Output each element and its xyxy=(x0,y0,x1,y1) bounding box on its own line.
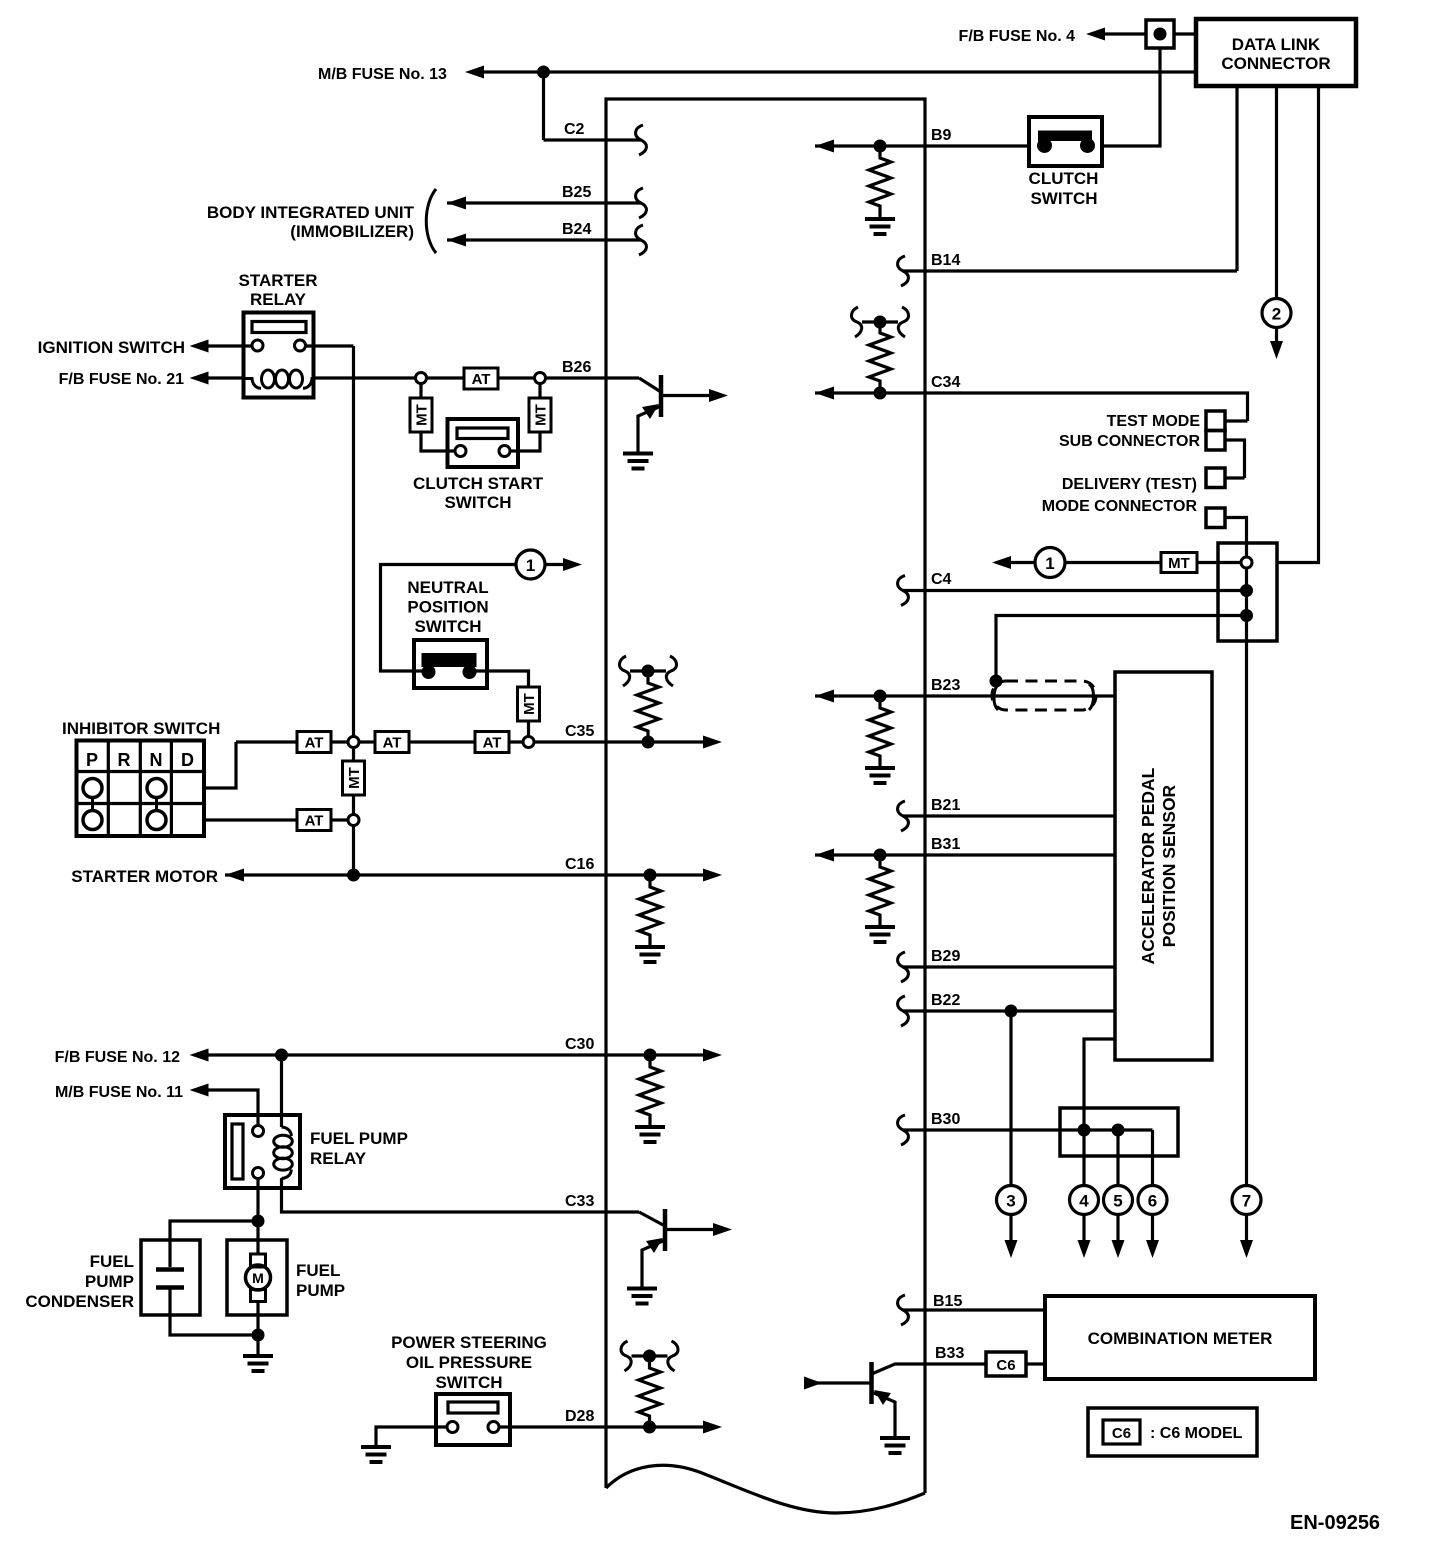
svg-text:CLUTCH START: CLUTCH START xyxy=(413,474,544,493)
clutch start switch contact right xyxy=(499,446,510,457)
data link connector box xyxy=(1196,19,1356,86)
fuel pump condenser box xyxy=(141,1240,200,1315)
wire to ground fuel pump xyxy=(256,1335,259,1356)
inhibitor contacts P column xyxy=(83,779,102,798)
wire square down to clutch switch xyxy=(1102,48,1160,146)
fuel pump relay contact bottom xyxy=(253,1168,264,1179)
transistor Q1 emitter xyxy=(638,406,661,453)
fuel pump relay box xyxy=(225,1115,300,1188)
arrow down circle 5 xyxy=(1112,1240,1125,1258)
AT box on B26 wire xyxy=(464,368,498,389)
svg-text:2: 2 xyxy=(1272,305,1281,324)
arrow M/B FUSE No. 13 xyxy=(465,66,484,79)
junction dot B30 block left xyxy=(1078,1124,1091,1137)
break squiggle B14 xyxy=(898,256,909,286)
wire DLC pin2 down to circle 2 xyxy=(1275,86,1278,299)
wire MT connector pin1 to circle 1 xyxy=(1065,561,1241,564)
MT box left (clutch start) xyxy=(410,398,432,432)
arrow B31 xyxy=(815,849,834,862)
svg-text:C6: C6 xyxy=(996,1357,1015,1374)
wire M/B FUSE No. 13 (y=72) xyxy=(481,70,1196,73)
junction dot B9 internal xyxy=(874,140,887,153)
arrow B9 xyxy=(815,140,834,153)
break squiggle B22 xyxy=(898,996,909,1026)
power steering oil pressure switch box xyxy=(436,1394,510,1445)
svg-text:F/B FUSE No. 4: F/B FUSE No. 4 xyxy=(959,28,1076,45)
arrow circle1 right xyxy=(563,558,582,571)
wire C6 to combination meter xyxy=(1026,1362,1045,1365)
svg-text:POWER STEERING: POWER STEERING xyxy=(391,1333,547,1352)
wire vertical x353 lower to starter motor wire xyxy=(352,826,355,876)
arrow C35 right (internal) xyxy=(703,736,722,749)
resistor B9 internal xyxy=(869,146,891,218)
neutral position switch bar xyxy=(422,653,477,667)
node C35/MT open circle xyxy=(523,737,534,748)
svg-text:RELAY: RELAY xyxy=(310,1149,367,1168)
svg-text:BODY INTEGRATED UNIT: BODY INTEGRATED UNIT xyxy=(207,203,415,222)
arrow STARTER MOTOR xyxy=(225,869,244,882)
fuel pump relay coil xyxy=(282,1127,292,1136)
svg-text:C35: C35 xyxy=(565,723,594,740)
svg-text:EN-09256: EN-09256 xyxy=(1290,1512,1380,1534)
wire C2 drop vertical xyxy=(542,72,545,140)
wire NPS to MT xyxy=(470,671,529,737)
test mode sub connector pin 2 xyxy=(1206,431,1225,451)
capacitor plates (condenser) xyxy=(156,1270,184,1288)
junction dot shield tap xyxy=(990,675,1003,688)
break squiggle C4 xyxy=(898,576,909,606)
MT box (neutral position) xyxy=(518,687,540,721)
wire junction to condenser xyxy=(170,1221,258,1267)
svg-text:CONDENSER: CONDENSER xyxy=(25,1292,134,1311)
node AT junction left (B26) xyxy=(416,373,427,384)
B30 connector block box xyxy=(1060,1108,1178,1156)
wire block verticals to circles 4 5 6 xyxy=(1084,1130,1153,1186)
svg-text:B26: B26 xyxy=(562,359,591,376)
power steering switch contact right xyxy=(488,1422,499,1433)
MT box right (clutch start) xyxy=(529,398,551,432)
junction dot fuel pump bottom xyxy=(252,1329,265,1342)
svg-text:ACCELERATOR PEDAL: ACCELERATOR PEDAL xyxy=(1138,767,1158,964)
arrow M/B FUSE No. 11 xyxy=(190,1084,209,1097)
wire condenser bottom xyxy=(170,1290,258,1336)
transistor Q3 collector wire B33 xyxy=(872,1364,987,1374)
svg-text:6: 6 xyxy=(1148,1192,1157,1211)
break squiggle B21 xyxy=(898,801,909,831)
wire relay bottom contact down xyxy=(256,1179,259,1221)
node MT connector pin1 open circle xyxy=(1241,557,1252,568)
transistor Q1 collector wire xyxy=(661,394,711,397)
ground power steering xyxy=(361,1447,391,1462)
svg-text:B31: B31 xyxy=(931,836,960,853)
svg-text:F/B FUSE No. 21: F/B FUSE No. 21 xyxy=(59,371,184,388)
fuel pump relay contact top xyxy=(253,1126,264,1137)
junction dot B23 internal xyxy=(874,690,887,703)
clutch switch contact left xyxy=(1037,138,1052,153)
junction dot starter motor x353 xyxy=(347,869,360,882)
ground B31 xyxy=(865,927,895,942)
svg-text:FUEL: FUEL xyxy=(90,1252,134,1271)
wire circle1 to neutral position switch xyxy=(381,565,517,672)
svg-text:SWITCH: SWITCH xyxy=(444,493,511,512)
wire B15 (y=1310) xyxy=(903,1308,1045,1311)
svg-text:C6: C6 xyxy=(1112,1425,1131,1442)
arrow B24 xyxy=(447,234,466,247)
arrow down circle 2 xyxy=(1270,341,1283,359)
arrow C16 right internal xyxy=(703,869,722,882)
transistor Q2 (C33) base wire xyxy=(639,1212,665,1226)
svg-text:C30: C30 xyxy=(565,1036,594,1053)
wire delivery upper pin xyxy=(1225,476,1245,479)
wire inhibitor row2 to C35 xyxy=(204,742,236,788)
arrow B25 xyxy=(447,197,466,210)
node AT junction right (B26) xyxy=(535,373,546,384)
svg-text:C2: C2 xyxy=(564,121,585,138)
svg-text:TEST MODE: TEST MODE xyxy=(1107,413,1201,430)
junction dot B30 block right xyxy=(1112,1124,1125,1137)
clutch switch contact right xyxy=(1080,138,1095,153)
resistor C34 internal xyxy=(869,321,891,393)
clutch switch bar xyxy=(1038,131,1092,142)
svg-text:SWITCH: SWITCH xyxy=(435,1373,502,1392)
node 1 circle (right) xyxy=(1035,548,1065,578)
ground Q1 xyxy=(623,454,653,469)
starter relay coil xyxy=(244,379,262,389)
resistor C16 internal xyxy=(639,875,661,947)
node 3 circle xyxy=(997,1186,1026,1215)
break squiggle B15 xyxy=(898,1295,909,1325)
svg-text:B21: B21 xyxy=(931,797,960,814)
AT box C35 #2 xyxy=(375,732,409,753)
neutral position switch box xyxy=(414,640,487,688)
junction dot C30 at relay xyxy=(275,1049,288,1062)
wire fuel pump bottom xyxy=(256,1302,259,1336)
svg-text:4: 4 xyxy=(1079,1192,1089,1211)
junction dot in square xyxy=(1154,28,1167,41)
arrow F/B FUSE No. 4 xyxy=(1086,28,1105,41)
svg-text:POSITION SENSOR: POSITION SENSOR xyxy=(1159,784,1179,947)
junction dot C30 internal xyxy=(644,1049,657,1062)
delivery mode connector pin upper xyxy=(1206,468,1225,488)
connector square F/B fuse 4 xyxy=(1146,20,1174,48)
junction dot B22 xyxy=(1005,1005,1018,1018)
svg-text:B24: B24 xyxy=(562,221,591,238)
MT mode connector box xyxy=(1218,543,1277,641)
svg-text:B33: B33 xyxy=(935,1345,964,1362)
wire circle1 to arrow xyxy=(545,563,564,566)
ECU control module box (main) xyxy=(606,99,925,1493)
wire pin1 to C34 xyxy=(1225,419,1248,422)
svg-text:CLUTCH: CLUTCH xyxy=(1029,169,1099,188)
svg-text:B25: B25 xyxy=(562,184,591,201)
wire IGNITION SWITCH (y=346) xyxy=(206,344,252,347)
svg-text:N: N xyxy=(150,750,163,770)
arrow C34 xyxy=(815,387,834,400)
svg-text:DELIVERY (TEST): DELIVERY (TEST) xyxy=(1062,476,1197,493)
fuel pump box xyxy=(227,1240,287,1315)
node 6 circle xyxy=(1138,1186,1167,1215)
wire STARTER MOTOR / C16 (y=875) xyxy=(225,873,704,876)
svg-text:INHIBITOR SWITCH: INHIBITOR SWITCH xyxy=(62,719,220,738)
node open circle lower at x353 xyxy=(348,815,359,826)
svg-text:SUB CONNECTOR: SUB CONNECTOR xyxy=(1059,433,1200,450)
svg-text:FUEL PUMP: FUEL PUMP xyxy=(310,1129,408,1148)
svg-text:M/B FUSE No. 13: M/B FUSE No. 13 xyxy=(318,66,447,83)
wire inhibitor row3 to AT xyxy=(204,818,348,821)
arrow F/B FUSE No. 12 xyxy=(190,1049,209,1062)
clutch start switch bar xyxy=(457,428,508,439)
C6 box on B33 wire xyxy=(986,1352,1026,1376)
wire M/B FUSE No. 11 (y=1090) xyxy=(206,1090,258,1125)
node 1 circle (left) xyxy=(516,550,545,579)
arrow F/B FUSE No. 21 xyxy=(190,372,209,385)
ECU box wavy bottom edge xyxy=(606,1465,925,1513)
power steering switch contact left xyxy=(447,1422,458,1433)
wire B26 from relay coil (y=378) xyxy=(314,376,640,379)
svg-text:M/B FUSE No. 11: M/B FUSE No. 11 xyxy=(55,1084,183,1101)
MT box (right) xyxy=(1161,553,1197,573)
svg-text:POSITION: POSITION xyxy=(407,598,488,617)
ground Q2 xyxy=(627,1289,657,1304)
arrow D28 right internal xyxy=(703,1421,722,1434)
junction dot D28 internal xyxy=(643,1421,656,1434)
svg-text:RELAY: RELAY xyxy=(250,290,307,309)
transistor Q2 collector wire xyxy=(665,1228,715,1231)
svg-text:R: R xyxy=(118,750,131,770)
wires circles to down arrows xyxy=(1011,1215,1247,1241)
svg-text:NEUTRAL: NEUTRAL xyxy=(407,578,488,597)
break squiggle B29 xyxy=(898,952,909,982)
wire shield line pin3 to B23 xyxy=(996,616,1247,682)
test mode sub connector pin 1 xyxy=(1206,411,1225,431)
svg-text:B23: B23 xyxy=(931,677,960,694)
node open circle C35 at x353 xyxy=(348,737,359,748)
node 2 circle xyxy=(1262,299,1291,328)
wire vertical x=353.5 relay to C35 xyxy=(352,346,355,737)
svg-text:IGNITION SWITCH: IGNITION SWITCH xyxy=(38,338,185,357)
wire B23 (y=696) xyxy=(815,694,1115,697)
neutral position switch contact right xyxy=(463,665,477,679)
arrow circle 1 left xyxy=(992,556,1011,569)
shield dashed oval around B23 wire xyxy=(992,681,1096,710)
svg-text:CONNECTOR: CONNECTOR xyxy=(1221,54,1330,73)
arrow down circle 6 xyxy=(1146,1240,1159,1258)
AT box C35 #3 xyxy=(475,732,509,753)
inhibitor contacts N column xyxy=(147,779,166,798)
starter relay contact left xyxy=(252,340,263,351)
svg-text:5: 5 xyxy=(1113,1192,1122,1211)
arrow down circle 3 xyxy=(1005,1240,1018,1258)
ground B23 xyxy=(865,768,895,783)
ground B9 xyxy=(865,219,895,234)
svg-text:B29: B29 xyxy=(931,948,960,965)
wire DLC pin3 down to MT connector xyxy=(1277,86,1319,563)
shield end curls xyxy=(994,684,1094,710)
wire F/B FUSE No. 4 (y=34) xyxy=(1104,32,1196,35)
resistor B23 internal xyxy=(869,696,891,768)
wire pin2 to delivery pin xyxy=(1225,440,1245,478)
wire delivery lower pin down to MT connector and circle 7 xyxy=(1225,518,1247,1186)
junction dot B31 internal xyxy=(874,849,887,862)
svg-text:(IMMOBILIZER): (IMMOBILIZER) xyxy=(290,222,414,241)
arrow Q2 collector xyxy=(713,1223,732,1236)
break squiggle B25 xyxy=(636,188,647,218)
wire coil bottom to C33 xyxy=(282,1178,640,1212)
node 5 circle xyxy=(1104,1186,1133,1215)
starter relay armature bar xyxy=(252,322,306,333)
wire left MT drop to clutch start switch xyxy=(421,384,455,452)
MT box between C35 and inhibitor lower wire xyxy=(352,748,355,815)
svg-text:DATA LINK: DATA LINK xyxy=(1232,35,1321,54)
ground C16 xyxy=(635,947,665,962)
wire junction to fuel pump xyxy=(256,1221,259,1255)
svg-text:SWITCH: SWITCH xyxy=(1030,189,1097,208)
resistor C35 internal xyxy=(637,671,659,743)
wire C35 (y=742) xyxy=(236,740,704,743)
C6 legend inner box xyxy=(1103,1420,1140,1444)
transistor Q1 bar xyxy=(659,375,664,417)
wire switch left to ground xyxy=(376,1427,447,1447)
transistor Q3 emitter xyxy=(872,1392,896,1437)
transistor Q2 bar xyxy=(663,1209,668,1251)
arrow down circle 4 xyxy=(1078,1240,1091,1258)
svg-text:FUEL: FUEL xyxy=(296,1261,340,1280)
resistor D28 internal xyxy=(639,1356,661,1428)
svg-text:B9: B9 xyxy=(931,127,952,144)
wire B30 (y=1130) xyxy=(903,1128,1153,1131)
AT box inhibitor lower xyxy=(297,810,331,831)
power steering switch bar xyxy=(448,1402,498,1413)
ground fuel pump xyxy=(243,1356,273,1371)
break squiggle B24 xyxy=(636,225,647,255)
twisted-pair hook D28 xyxy=(621,1341,678,1371)
transistor Q2 emitter xyxy=(642,1240,665,1288)
accelerator pedal position sensor box xyxy=(1115,672,1212,1060)
twisted-pair hook C35 xyxy=(619,656,676,686)
svg-text:PUMP: PUMP xyxy=(85,1272,134,1291)
svg-text:1: 1 xyxy=(1045,554,1054,573)
combination meter box xyxy=(1045,1296,1315,1379)
wire B24 (y=240) xyxy=(447,238,641,241)
wire circle 2 to down arrow xyxy=(1275,328,1278,342)
svg-text:C4: C4 xyxy=(931,571,952,588)
wire C4 (y=590.5) xyxy=(903,589,1247,592)
wire B25 (y=203) xyxy=(447,201,641,204)
node 7 circle xyxy=(1232,1186,1261,1215)
arrow C30 right internal xyxy=(703,1049,722,1062)
resistor C30 internal xyxy=(639,1055,661,1127)
C6 legend box xyxy=(1088,1408,1257,1456)
svg-text:D: D xyxy=(181,750,194,770)
inhibitor switch box grid xyxy=(77,741,205,837)
junction dot C34 internal xyxy=(874,387,887,400)
wire B22 down to circle 3 xyxy=(1009,1011,1012,1186)
svg-text:C16: C16 xyxy=(565,856,594,873)
arrow IGNITION SWITCH xyxy=(190,340,209,353)
wire C2 (y=140) xyxy=(544,138,642,141)
junction dot MT connector pin3 xyxy=(1240,609,1253,622)
ground C30 xyxy=(635,1127,665,1142)
svg-text:SWITCH: SWITCH xyxy=(414,617,481,636)
junction dot MT connector pin2 xyxy=(1240,584,1253,597)
node 4 circle xyxy=(1070,1186,1099,1215)
svg-text:B30: B30 xyxy=(931,1111,960,1128)
wire B31 (y=855) xyxy=(815,853,1115,856)
resistor B31 internal xyxy=(869,855,891,927)
clutch start switch box xyxy=(448,419,519,467)
break squiggle B30 xyxy=(898,1115,909,1145)
wire C34 (y=393) xyxy=(815,393,1248,421)
svg-text:F/B FUSE No. 12: F/B FUSE No. 12 xyxy=(55,1049,180,1066)
transistor Q3 (B33) base wire with arrow xyxy=(805,1381,872,1384)
svg-text:B22: B22 xyxy=(931,992,960,1009)
wire D28 (y=1427) xyxy=(499,1425,704,1428)
svg-text:MT: MT xyxy=(1168,555,1190,572)
starter relay contact right xyxy=(295,340,306,351)
wire sensor bottom to B30 block xyxy=(1084,1039,1115,1130)
svg-text:P: P xyxy=(86,750,98,770)
arrow B23 xyxy=(815,690,834,703)
svg-text:B15: B15 xyxy=(933,1293,962,1310)
transistor Q3 bar xyxy=(869,1362,874,1404)
svg-text:1: 1 xyxy=(526,556,535,575)
svg-text:PUMP: PUMP xyxy=(296,1281,345,1300)
svg-text:B14: B14 xyxy=(931,252,960,269)
wire F/B FUSE No. 21 (y=378) xyxy=(206,376,244,379)
wire B29 (y=967) xyxy=(903,965,1115,968)
junction dot fuel pump top xyxy=(252,1215,265,1228)
twisted-pair hook C34 xyxy=(851,307,908,337)
delivery mode connector pin lower xyxy=(1206,508,1225,528)
wire F/B FUSE No.12 / C30 (y=1055) xyxy=(206,1053,704,1056)
svg-text:3: 3 xyxy=(1006,1192,1015,1211)
arrow Q1 collector xyxy=(709,389,728,402)
wire circle 1 to arrow xyxy=(1011,561,1035,564)
svg-text:: C6 MODEL: : C6 MODEL xyxy=(1150,1425,1243,1442)
junction dot C16 internal xyxy=(644,869,657,882)
wire coil top to C30 junction xyxy=(280,1055,283,1127)
transistor Q1 (B26) base wire xyxy=(639,378,661,392)
break squiggle C2 xyxy=(636,125,647,155)
junction M/B FUSE 13 / C2 xyxy=(537,66,550,79)
wire relay right contact to vertical xyxy=(306,344,354,347)
brace for body integrated unit xyxy=(426,189,436,253)
svg-text:MODE CONNECTOR: MODE CONNECTOR xyxy=(1042,498,1198,515)
fuel pump relay element bar xyxy=(232,1124,243,1179)
svg-text:STARTER: STARTER xyxy=(238,271,317,290)
junction dot C35 internal xyxy=(642,736,655,749)
wire B21 (y=816) xyxy=(903,814,1115,817)
svg-text:M: M xyxy=(252,1270,264,1286)
svg-text:D28: D28 xyxy=(565,1408,594,1425)
svg-text:C33: C33 xyxy=(565,1193,594,1210)
wire DLC pin1 down to B14 xyxy=(1235,86,1238,271)
arrow down circle 7 xyxy=(1240,1240,1253,1258)
svg-text:7: 7 xyxy=(1242,1192,1251,1211)
clutch start switch contact left xyxy=(455,446,466,457)
svg-text:OIL PRESSURE: OIL PRESSURE xyxy=(406,1353,532,1372)
wire B22 (y=1011) xyxy=(903,1009,1115,1012)
neutral position switch contact left xyxy=(422,665,436,679)
wire B14 (y=271) xyxy=(903,269,1237,272)
clutch switch box xyxy=(1029,117,1102,166)
wire B9 (y=146) xyxy=(815,144,1029,147)
fuel pump motor symbol xyxy=(251,1254,266,1267)
svg-text:COMBINATION METER: COMBINATION METER xyxy=(1088,1329,1273,1348)
svg-text:C34: C34 xyxy=(931,374,960,391)
ground Q3 xyxy=(880,1438,910,1453)
wire right MT drop to clutch start switch xyxy=(510,384,540,452)
